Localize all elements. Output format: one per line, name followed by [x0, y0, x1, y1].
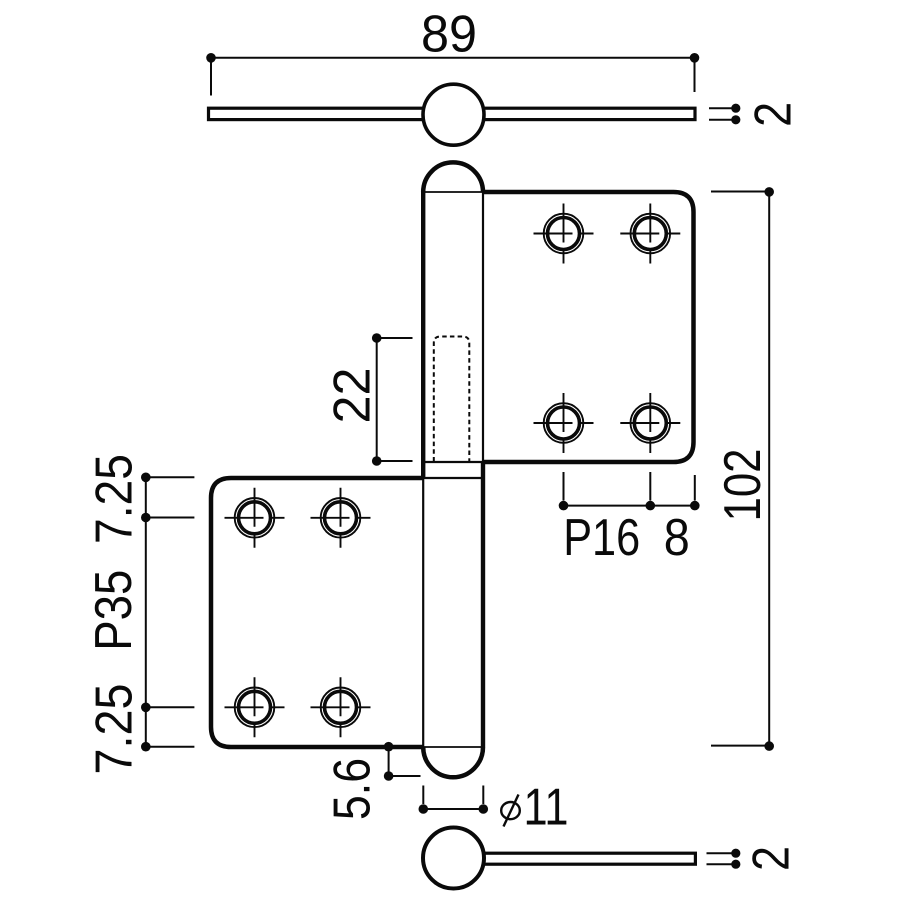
svg-text:P35: P35: [85, 570, 143, 651]
svg-text:89: 89: [421, 6, 477, 64]
svg-text:22: 22: [324, 368, 382, 424]
svg-text:7.25: 7.25: [86, 454, 144, 544]
svg-text:102: 102: [714, 449, 772, 522]
svg-text:7.25: 7.25: [86, 684, 144, 775]
svg-text:P16: P16: [563, 509, 640, 567]
svg-text:2: 2: [743, 846, 801, 871]
svg-text:2: 2: [745, 102, 803, 127]
svg-text:11: 11: [524, 779, 569, 837]
svg-text:8: 8: [664, 509, 690, 567]
svg-text:5.6: 5.6: [324, 758, 382, 820]
